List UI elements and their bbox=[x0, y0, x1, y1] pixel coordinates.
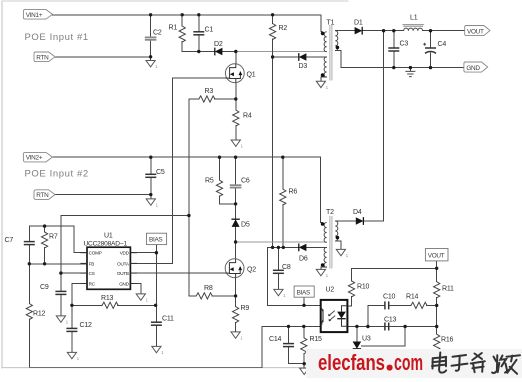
wire R9 bottom lead bbox=[235, 322, 237, 331]
svg-text:C9: C9 bbox=[40, 284, 49, 291]
wire C11 bottom lead bbox=[155, 325, 157, 346]
watermark background bbox=[306, 349, 522, 378]
wire opto LED cathode line y=326.5 bbox=[347, 325, 436, 327]
wire R12 bottom lead bbox=[28, 319, 30, 367]
wire C10 left corner bbox=[368, 305, 385, 326]
svg-text:R3: R3 bbox=[205, 88, 214, 95]
wire C4 bottom lead bbox=[430, 53, 432, 68]
diode D3 bbox=[299, 53, 307, 61]
ground below U3 bbox=[352, 367, 364, 376]
wire C8 bottom lead bbox=[277, 273, 279, 289]
wire TL431 ref line bbox=[361, 327, 405, 347]
svg-text:T2: T2 bbox=[326, 209, 334, 216]
svg-text:RTN: RTN bbox=[36, 54, 49, 61]
svg-text:GND: GND bbox=[466, 65, 480, 72]
wire R4 top lead bbox=[235, 99, 237, 110]
wire D6 to T2 lower winding bbox=[306, 246, 326, 248]
junction dot VOUT2 bbox=[435, 267, 438, 270]
junction dot R7 top bbox=[43, 224, 46, 227]
wire OUTA vertical x=172.5 bbox=[172, 78, 174, 263]
wire R13 right lead bbox=[118, 304, 156, 306]
junction dot D5 anode bbox=[234, 240, 237, 243]
wire R11-R16 vertical bbox=[436, 305, 438, 334]
wire C3 bottom lead bbox=[393, 51, 395, 68]
svg-text:C10: C10 bbox=[383, 294, 396, 301]
wire C14 bottom jog bbox=[289, 347, 305, 364]
wire R8 left lead bbox=[189, 295, 196, 297]
ground below C11 bbox=[152, 346, 164, 355]
wire R6 top lead bbox=[282, 157, 284, 189]
diode D4 bbox=[356, 217, 364, 225]
wire VDD vertical to C11 bbox=[155, 253, 157, 323]
resistor R16 bbox=[434, 334, 440, 350]
svg-text:R2: R2 bbox=[279, 25, 288, 32]
wire bottom feedback rail y=367.6 bbox=[29, 367, 262, 369]
wire R1 top lead bbox=[181, 15, 183, 26]
svg-text:VOUT: VOUT bbox=[467, 28, 484, 35]
wire T1 lower winding bottom to ground bbox=[321, 77, 327, 81]
svg-text:D2: D2 bbox=[214, 41, 223, 48]
capacitor C6 (grey) bbox=[230, 185, 242, 187]
svg-text:R16: R16 bbox=[441, 337, 454, 344]
resistor R6 bbox=[280, 189, 286, 205]
tag VOUT (feedback) bbox=[425, 249, 448, 261]
wire D3 to T1 lower winding bbox=[306, 56, 326, 58]
capacitor C12 bbox=[66, 328, 77, 331]
wire VOUT2 tag stub bbox=[436, 261, 438, 268]
wire R1 bottom lead bbox=[181, 42, 183, 52]
wire bias vertical x=267.3 bbox=[266, 247, 268, 305]
capacitor C7 bbox=[24, 242, 35, 245]
wire opto emitter line y=326.4 bbox=[262, 325, 321, 327]
svg-text:C1: C1 bbox=[205, 27, 214, 34]
wire D1 cathode to L1 bbox=[363, 30, 404, 32]
junction dot sense line bbox=[187, 214, 190, 217]
capacitor C1 bbox=[193, 32, 204, 35]
earth ground output rail bbox=[405, 71, 415, 76]
resistor R5 bbox=[216, 180, 222, 196]
wire Q2 source lead bbox=[235, 278, 237, 296]
capacitor C13 (horizontal) bbox=[385, 323, 389, 331]
svg-text:T1: T1 bbox=[327, 20, 335, 27]
wire T1 secondary bottom lead bbox=[335, 51, 341, 68]
svg-text:POE Input #2: POE Input #2 bbox=[25, 169, 89, 180]
transformer T2 bbox=[321, 216, 339, 269]
wire R5 bottom jog bbox=[220, 196, 236, 204]
wire VDD pin line bbox=[130, 252, 156, 254]
svg-text:R8: R8 bbox=[204, 285, 213, 292]
wire C1 bottom lead bbox=[198, 35, 200, 52]
wire U3 anode to ground bbox=[356, 349, 358, 368]
wire compensation top line y=226.1 bbox=[29, 225, 74, 227]
wire C12 bottom lead bbox=[71, 331, 73, 352]
wire C6 node to D5 cathode bbox=[235, 204, 237, 219]
wire OUTB pin line to Q2 gate bbox=[130, 272, 225, 274]
svg-text:BIAS: BIAS bbox=[297, 289, 310, 296]
svg-text:VIN1+: VIN1+ bbox=[26, 12, 43, 19]
optocoupler U2 bbox=[320, 300, 347, 332]
tag RTN (input 1) bbox=[34, 52, 55, 62]
tag BIAS (at U1) bbox=[147, 233, 167, 244]
svg-text:R5: R5 bbox=[205, 178, 214, 185]
svg-text:VDD: VDD bbox=[120, 251, 130, 256]
wire Q1 drain lead bbox=[235, 52, 237, 64]
junction dots LED cathode line bbox=[355, 325, 358, 328]
diode D6 bbox=[299, 244, 307, 252]
resistor R10 bbox=[348, 281, 354, 297]
svg-text:C13: C13 bbox=[384, 317, 397, 324]
junction dot RTN2 bbox=[149, 193, 152, 196]
resistor R8 (horizontal) bbox=[196, 293, 212, 299]
svg-text:C8: C8 bbox=[282, 264, 291, 271]
resistor R13 (horizontal) bbox=[102, 302, 118, 308]
wire D4 cathode to riser bbox=[364, 220, 384, 222]
resistor R4 bbox=[233, 110, 239, 126]
junction dots FB line bbox=[28, 262, 31, 265]
ground below C8 bbox=[274, 289, 286, 298]
junction dots RC node bbox=[70, 304, 73, 307]
wire C8 top lead bbox=[277, 247, 279, 270]
wire FB line y=263.8 bbox=[29, 263, 87, 265]
svg-text:C7: C7 bbox=[5, 237, 14, 244]
svg-text:R11: R11 bbox=[442, 286, 454, 293]
tag VOUT (output) bbox=[465, 26, 490, 36]
diode D5 bbox=[231, 219, 239, 227]
ground below R9 bbox=[231, 332, 243, 341]
wire COMP pin line bbox=[74, 226, 87, 253]
wire CS vertical x=60.9 bbox=[60, 216, 62, 292]
svg-text:R6: R6 bbox=[289, 189, 298, 196]
wire RC pin line bbox=[72, 284, 87, 306]
svg-text:elecfans: elecfans bbox=[318, 350, 385, 375]
wire R7 bottom lead bbox=[44, 248, 46, 264]
svg-text:C4: C4 bbox=[438, 41, 447, 48]
wire BIAS2 tag stub bbox=[303, 297, 305, 305]
svg-text:L1: L1 bbox=[410, 15, 418, 22]
wire feedback riser x=262 bbox=[261, 326, 263, 367]
junction dot BIAS2 stub bbox=[302, 304, 305, 307]
svg-text:D3: D3 bbox=[299, 63, 308, 70]
wire R15 bottom lead bbox=[303, 353, 305, 363]
wire C4 top lead bbox=[430, 31, 432, 48]
junction dot C14-R15 ground bbox=[303, 362, 306, 365]
ground below C9 bbox=[56, 316, 68, 325]
wire R9 top lead bbox=[235, 296, 237, 307]
capacitor C8 bbox=[273, 270, 284, 273]
wire C9 bottom lead bbox=[60, 294, 62, 315]
svg-text:C14: C14 bbox=[269, 336, 282, 343]
wire R3 left lead bbox=[189, 98, 199, 100]
svg-text:Q2: Q2 bbox=[247, 267, 256, 274]
svg-text:C12: C12 bbox=[80, 322, 93, 329]
wire C14 top lead bbox=[288, 326, 290, 343]
svg-text:UCC2808AD−1: UCC2808AD−1 bbox=[84, 240, 128, 247]
capacitor C2 (bulk, grey) bbox=[145, 37, 157, 39]
wire C7 top lead bbox=[28, 226, 30, 242]
tag VIN2+ bbox=[23, 152, 52, 162]
wire D5 anode lead bbox=[235, 227, 237, 242]
wire earth ground stub bbox=[409, 68, 411, 71]
svg-text:U2: U2 bbox=[326, 287, 335, 294]
resistor R12 bbox=[26, 304, 32, 320]
svg-text:U1: U1 bbox=[104, 233, 113, 240]
junction dots bias line bbox=[271, 246, 274, 249]
wire R6 bottom lead bbox=[282, 205, 284, 248]
wire D5 node to T2 upper winding (faint) bbox=[236, 241, 327, 243]
junction dots y=57 bbox=[149, 55, 152, 58]
svg-text:D4: D4 bbox=[353, 209, 362, 216]
tag BIAS (at U2) bbox=[294, 286, 314, 297]
wire C2 top lead bbox=[150, 15, 152, 37]
svg-text:POE Input #1: POE Input #1 bbox=[25, 32, 89, 43]
ground at U1 GND pin bbox=[136, 294, 148, 303]
wire R8 right lead bbox=[212, 295, 236, 297]
wire C5 bottom lead bbox=[150, 177, 152, 198]
wire L1 to VOUT tag bbox=[423, 30, 465, 32]
svg-text:C3: C3 bbox=[400, 41, 409, 48]
junction dot Q2 source node bbox=[234, 294, 237, 297]
svg-text:com: com bbox=[394, 350, 423, 375]
svg-text:CS: CS bbox=[89, 271, 95, 276]
ground below C5 RTN2 bbox=[146, 199, 158, 208]
junction dot R5-C6 bbox=[234, 202, 237, 205]
junction dots R11 divider bbox=[435, 304, 438, 307]
ground below C12 bbox=[67, 352, 79, 361]
wire OUTA pin line bbox=[130, 262, 172, 264]
svg-text:Q1: Q1 bbox=[247, 72, 256, 79]
wire Q1 drain node to T1 (faint) bbox=[236, 51, 327, 53]
tag RTN (input 2) bbox=[34, 190, 55, 200]
wire R15 top lead bbox=[303, 326, 305, 337]
MOSFET Q1 bbox=[225, 64, 244, 83]
svg-text:R9: R9 bbox=[241, 305, 250, 312]
wire R11 top lead bbox=[436, 268, 438, 281]
wire VIN1+ rail y=14.8 bbox=[52, 14, 321, 16]
svg-text:VOUT: VOUT bbox=[428, 252, 445, 259]
wire R2 lower vertical bbox=[272, 39, 274, 247]
wire T1 primary top lead bbox=[321, 15, 322, 32]
capacitor C11 bbox=[151, 322, 162, 325]
capacitor C3 bbox=[388, 48, 399, 51]
wire R4 bottom lead to ground bbox=[235, 126, 237, 140]
svg-text:R10: R10 bbox=[357, 284, 370, 291]
capacitor C10 (horizontal) bbox=[385, 301, 389, 309]
wire T2 secondary top lead to D4 bbox=[335, 220, 356, 222]
capacitor C9 bbox=[55, 291, 66, 294]
svg-text:R7: R7 bbox=[49, 234, 58, 241]
junction dots D1 output line bbox=[382, 29, 385, 32]
wire C12 top lead bbox=[71, 305, 73, 328]
wire R3 right lead bbox=[215, 98, 236, 100]
ground below C2 bbox=[146, 61, 158, 70]
MOSFET Q2 bbox=[225, 259, 244, 278]
svg-text:RTN: RTN bbox=[36, 192, 49, 199]
svg-text:C5: C5 bbox=[156, 169, 165, 176]
wire R10 bottom to opto bbox=[347, 297, 351, 306]
svg-text:BIAS: BIAS bbox=[149, 237, 162, 244]
svg-text:C11: C11 bbox=[162, 316, 174, 323]
earth ground below R16 bbox=[433, 370, 441, 374]
resistor R7 bbox=[42, 232, 48, 248]
resistor R2 bbox=[270, 24, 276, 40]
wire RTN1 line y=56.8 bbox=[53, 56, 150, 58]
ground below R4 bbox=[231, 140, 243, 149]
wire C5 top lead bbox=[150, 157, 152, 174]
wire R13 left lead bbox=[72, 304, 102, 306]
wire C6 top lead bbox=[235, 157, 237, 185]
wire C14-R15 ground stub bbox=[303, 364, 305, 368]
wire D4 vertical riser x=383.6 bbox=[383, 31, 385, 221]
svg-text:OUTA: OUTA bbox=[117, 261, 130, 266]
junction dot CS line bbox=[59, 271, 62, 274]
capacitor C14 bbox=[283, 344, 294, 347]
wire output return rail y=67.6 bbox=[341, 67, 464, 69]
wire Q1 source lead bbox=[235, 83, 237, 99]
svg-text:OUTB: OUTB bbox=[117, 271, 129, 276]
wire node R1-C1-D2 y=51.5 bbox=[182, 51, 214, 53]
svg-text:R15: R15 bbox=[310, 336, 323, 343]
junction dot VDD bbox=[155, 251, 158, 254]
svg-text:D1: D1 bbox=[354, 20, 363, 27]
wire T1 secondary top lead to D1 bbox=[335, 30, 354, 32]
wire C3 top lead bbox=[393, 31, 395, 48]
svg-text:R14: R14 bbox=[406, 294, 419, 301]
svg-text:R4: R4 bbox=[243, 113, 252, 120]
junction dots y=51.5 bbox=[197, 50, 200, 53]
junction dots output return rail bbox=[392, 66, 395, 69]
wire T2 secondary bottom lead to ground bbox=[335, 241, 341, 249]
wire VIN2+ rail y=157.2 bbox=[52, 156, 320, 158]
tag GND (output) bbox=[464, 62, 488, 72]
wire R2 vertical (rail to bias line) bbox=[272, 15, 274, 24]
wire C7 bottom lead bbox=[28, 245, 30, 264]
svg-text:R13: R13 bbox=[101, 295, 114, 302]
wire R10 top corner bbox=[352, 268, 437, 281]
resistor R15 bbox=[301, 338, 307, 354]
svg-text:D6: D6 bbox=[299, 256, 308, 263]
wire C6 bottom lead bbox=[235, 188, 237, 204]
wire C1 top lead bbox=[198, 15, 200, 32]
svg-text:U3: U3 bbox=[362, 336, 371, 343]
junction dots VIN2 rail bbox=[149, 156, 152, 159]
wire U3 branch bbox=[356, 326, 358, 341]
wire R11 bottom lead bbox=[436, 297, 438, 305]
wire bias line y=247.4 bbox=[267, 246, 298, 248]
ground below C14-R15 bbox=[300, 368, 312, 377]
diode D1 bbox=[355, 27, 363, 35]
page border bottom bbox=[2, 367, 308, 369]
resistor R9 bbox=[233, 307, 239, 323]
resistor R14 (horizontal) bbox=[411, 302, 427, 308]
svg-text:COMP: COMP bbox=[89, 251, 102, 256]
wire CS pin line bbox=[61, 272, 87, 274]
junction dots emitter line bbox=[287, 325, 290, 328]
junction dots top rail bbox=[149, 13, 152, 16]
wire R5 top lead bbox=[219, 157, 221, 180]
wire C10 to R14 bbox=[389, 304, 411, 306]
capacitor C5 bbox=[145, 174, 156, 177]
wire opto collector line y=305.3 bbox=[267, 304, 320, 306]
shunt regulator U3 TL431A bbox=[353, 342, 362, 349]
svg-text:R1: R1 bbox=[169, 25, 178, 32]
wire D2 to Q1 drain node bbox=[222, 51, 235, 53]
wire R7 top lead bbox=[44, 226, 46, 232]
resistor R1 bbox=[179, 26, 185, 42]
wire T2 primary top lead bbox=[321, 157, 323, 222]
resistor R11 bbox=[434, 282, 440, 298]
wire C2 bottom lead bbox=[150, 40, 152, 60]
tag VIN1+ bbox=[23, 10, 52, 20]
wire BIAS tag stub bbox=[155, 245, 157, 253]
junction dot Q1 source node bbox=[234, 97, 237, 100]
wire R16 bottom lead bbox=[436, 350, 438, 369]
IC U1 UCC2808AD-1 bbox=[80, 247, 137, 289]
wire CS sense line y=215.5 bbox=[61, 215, 189, 217]
svg-text:R12: R12 bbox=[33, 311, 46, 318]
ground below T1 primary bbox=[316, 81, 328, 90]
svg-text:RC: RC bbox=[89, 281, 96, 286]
wire GND pin to ground bbox=[130, 284, 140, 294]
wire R14 to R11 node bbox=[427, 304, 437, 306]
inductor L1 bbox=[402, 25, 424, 31]
page border top bbox=[2, 0, 348, 2]
svg-text:C2: C2 bbox=[153, 30, 162, 37]
svg-text:VIN2+: VIN2+ bbox=[26, 155, 43, 162]
svg-text:GND: GND bbox=[119, 281, 129, 286]
wire RTN2 line y=194.6 bbox=[53, 194, 151, 196]
wire Q2 drain lead bbox=[235, 242, 237, 259]
wire R2 junction to D3 y=57 bbox=[273, 56, 299, 58]
wire sense vertical x=188.9 (R3/CS/R8) bbox=[188, 99, 190, 296]
capacitor C4 (polarized) bbox=[423, 43, 436, 54]
watermark chinese 电子发烧友 bbox=[432, 353, 520, 374]
wire T2 lower winding bottom to ground bbox=[321, 267, 327, 269]
diode D2 bbox=[215, 48, 223, 56]
ground below T2 primary bbox=[316, 269, 328, 278]
wire Q1 gate line y=78 bbox=[173, 77, 226, 79]
page border left bbox=[1, 1, 3, 368]
wire R12 top lead bbox=[28, 264, 30, 304]
svg-text:FB: FB bbox=[89, 261, 95, 266]
resistor R3 (horizontal) bbox=[199, 96, 215, 102]
ground below T2 secondary bbox=[336, 249, 348, 258]
svg-text:D5: D5 bbox=[241, 222, 250, 229]
svg-text:C6: C6 bbox=[241, 178, 250, 185]
transformer T1 bbox=[321, 25, 339, 81]
